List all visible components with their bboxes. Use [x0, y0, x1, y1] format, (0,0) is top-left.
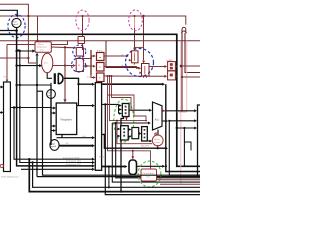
svg-text:M: M — [99, 67, 101, 69]
wire connector y50 — [17, 49, 20, 51]
wire pink y112 — [177, 111, 187, 113]
svg-text:mem: mem — [87, 76, 92, 78]
wire red vertical x143.5 — [143, 16, 145, 60]
wire RB arrow y120.8 — [169, 120, 194, 122]
wire x108.9 from cap band down — [108, 167, 110, 188]
node junction PC out — [15, 29, 18, 32]
wire vertical x51 feeding register pins — [50, 85, 52, 145]
wire top red 2 — [0, 16, 186, 25]
wire IR upper out corner to S1 — [83, 56, 93, 59]
wire RC bottom join — [157, 146, 159, 148]
svg-text:ALU: ALU — [155, 118, 160, 121]
svg-text:Sequencer: Sequencer — [37, 46, 48, 49]
wire red right y66 — [181, 65, 200, 67]
wire red decoder right out y47 to register — [51, 47, 76, 100]
wire x121 M1 bottom down — [121, 117, 124, 192]
wire M1 out y110.2 — [129, 109, 149, 111]
annotation magenta ellipse 1 — [76, 10, 89, 30]
annotation blue circle 3 — [126, 49, 154, 77]
pin red input circle on P10 — [0, 164, 3, 167]
wire pink inside magenta ellipse2 — [134, 16, 136, 28]
annotation magenta ellipse 2 — [129, 10, 143, 31]
wire red corner x106 down — [106, 41, 139, 68]
wire x14 down to y159.2 — [14, 108, 92, 160]
wire arrow into RC left mid — [148, 140, 150, 142]
wire M1 pin stubs — [118, 104, 121, 113]
op RC micro counter circle — [152, 135, 163, 146]
wire x184.4 lower branch — [183, 128, 185, 166]
wire bottom loop x32.6 — [33, 163, 200, 188]
svg-text:ptr+1: ptr+1 — [13, 23, 19, 26]
component IR box — [76, 59, 83, 72]
wire B1 right y166.5 to capsule thick — [102, 166, 125, 168]
wire x112.3 down — [112, 123, 200, 182]
svg-text:0x00 0x0000 t=12: 0x00 0x0000 t=12 — [1, 176, 19, 179]
component RB right box — [198, 105, 201, 177]
wire x115.7 down — [116, 123, 200, 178]
wire gate legs down — [181, 33, 183, 112]
wire black bus from gate to B1 — [64, 78, 92, 84]
wire red y58 step — [0, 57, 28, 59]
wire left vertical LV2 — [20, 50, 92, 163]
wire arrow into P10 left y112.5 — [0, 112, 1, 114]
component BX2 — [132, 128, 139, 139]
svg-text:Inst: Inst — [13, 20, 17, 23]
wire comp1 second left arrow — [128, 59, 131, 61]
component stack S2 — [97, 63, 105, 72]
svg-text:unit: unit — [40, 48, 44, 51]
wire comp2 right to EXE — [149, 66, 165, 68]
svg-text:Instruction 1(5): Instruction 1(5) — [66, 160, 81, 163]
wire RB arrow y128 — [177, 127, 195, 129]
gate G1 tri-state — [54, 73, 56, 84]
annotation blue circle 2a — [73, 45, 86, 58]
wire black y85 — [17, 84, 51, 86]
wire arrow into P10 left y87 — [0, 86, 1, 88]
pin EXE right nubs — [175, 67, 176, 77]
component comp1 — [132, 51, 138, 63]
component stack S1 — [97, 53, 105, 61]
wire comp2 bottom stubs — [144, 76, 147, 78]
wire comp1 bottom stub — [133, 63, 135, 65]
wire M2 out red arrow — [162, 110, 166, 112]
wire B1 out to M1 y104.4 — [102, 103, 119, 105]
component Register box — [56, 103, 76, 135]
wire M2 lower out y121 — [162, 120, 166, 122]
wire comp1 top connector to comp2 feed — [135, 46, 144, 48]
wire black top bus y34.3 — [0, 34, 200, 166]
wire x105.3 down long to bottom — [105, 104, 200, 194]
wire arrows into BX1 — [116, 128, 119, 130]
svg-text:Register: Register — [61, 118, 73, 122]
component capsule — [129, 160, 137, 175]
svg-text:Out: Out — [82, 135, 86, 138]
component instruction decoder box — [35, 42, 51, 53]
wire red decoder right out y44.5 — [51, 41, 67, 45]
wire B1 out y134.4 to y148.2 long — [102, 134, 166, 148]
annotation green ellipse 2 — [138, 161, 161, 187]
svg-text:Forwarding: Forwarding — [143, 172, 155, 175]
component EXE box lower — [168, 71, 176, 80]
wire arrow BX2 to BX3 — [138, 133, 141, 135]
svg-text:imped: imped — [51, 146, 56, 148]
svg-text:EXM8: EXM8 — [167, 60, 174, 62]
wire S1 out to comp1 — [104, 55, 126, 57]
wire top red 1 — [0, 4, 28, 16]
component stack S3 — [97, 73, 105, 82]
svg-text:Micro: Micro — [154, 138, 160, 141]
component FW red box — [141, 169, 157, 181]
wire red frame to y143.7 — [117, 121, 152, 144]
wire left vertical LV1 thick — [17, 31, 93, 166]
wire red nest x111.5 — [112, 76, 132, 110]
svg-text:Instruction 2(5): Instruction 2(5) — [66, 163, 81, 166]
svg-text:Reg2: Reg2 — [99, 157, 105, 159]
wire pink vertical right a — [186, 41, 188, 112]
node junction x143.5 y16 — [142, 15, 144, 17]
annotation blue circle 2b — [72, 58, 86, 72]
wire oval bottom to gate — [47, 73, 52, 79]
wire red nest x107.5 long — [108, 76, 147, 121]
component BX3 — [142, 127, 148, 141]
svg-text:R flag: R flag — [97, 50, 103, 52]
component comp2 — [142, 64, 150, 77]
junction dots bottom-left grid — [28, 158, 30, 160]
wire S3 out long to EXE — [104, 75, 165, 77]
wire bottom loop x29.3 thick — [29, 159, 200, 191]
svg-text:count: count — [154, 141, 160, 144]
op red oval decode — [42, 53, 53, 73]
wire red right y77 — [182, 76, 200, 78]
wire pink vertical right b — [180, 42, 182, 184]
wire register bottom out y137.7 — [57, 135, 93, 138]
op +1 circle C2 — [50, 83, 52, 90]
wire arrow into comp2 top — [142, 61, 145, 64]
wire black arrow into decoder left — [17, 50, 33, 52]
wire black y10.3 into PC top — [0, 10, 17, 15]
svg-text:Inst: Inst — [48, 91, 52, 94]
wire x168.3 vertical — [169, 121, 200, 175]
wire red oval out y65.5 — [53, 65, 73, 67]
component EXE box upper — [168, 62, 176, 71]
component BX1 — [121, 126, 129, 140]
wire S3 left arrow stub — [91, 75, 93, 78]
wire red vertical x37.5 — [37, 16, 39, 42]
wire black arrow into oval — [17, 65, 40, 67]
wire red into capsule top — [132, 151, 134, 157]
wire red left loop y44.5 — [7, 45, 35, 79]
node junction x37.5 y40.7 — [36, 40, 38, 42]
wire red x107.5 to y150.8 — [108, 95, 151, 169]
svg-text:inst: inst — [44, 62, 48, 65]
wire arrow BX1 to BX2 — [127, 129, 130, 131]
wire black down to register top wire — [79, 84, 93, 105]
wire red FW out — [157, 179, 201, 181]
wire step x42.5 — [37, 91, 200, 175]
wire right vertical x164.5 — [166, 84, 200, 171]
wire black y123 — [112, 122, 148, 124]
component small box A — [78, 37, 85, 44]
wire red nest x109.5 — [110, 76, 147, 121]
wire S2 out to comp2 — [104, 67, 139, 69]
svg-text:unit: unit — [146, 176, 150, 179]
wire B1 right bus y84.2 to right — [102, 83, 163, 85]
component P10 tall box — [4, 82, 11, 172]
wire register out right y105.6 — [77, 105, 79, 107]
wire comp2 second left arrow — [139, 72, 141, 74]
wire hiZ out thick y145.7 — [59, 145, 92, 147]
svg-text:Instruction OK(5): Instruction OK(5) — [63, 156, 80, 159]
wire red horizontal y40.7 — [0, 40, 200, 42]
wire red vertical x82.5 upper — [82, 16, 84, 37]
svg-text:Micro: Micro — [38, 43, 44, 46]
op hi-Z circle — [50, 140, 59, 151]
wire instruction line y169.3 — [21, 168, 92, 170]
wire black y30.5 from PC circle — [0, 30, 17, 32]
wire red vertical x134.5 — [134, 28, 136, 50]
component M1 box — [122, 104, 129, 117]
annotation green ellipse 1 tall — [114, 99, 134, 142]
wire red vertical x91 — [90, 50, 92, 75]
component B1 tall buffer box — [95, 83, 101, 171]
wire red y184.3 — [160, 183, 200, 185]
wire M2 bottom to RC — [157, 130, 159, 136]
component small box B — [76, 48, 83, 57]
wire red arrow into P10 box top — [6, 78, 8, 81]
component M2 ALU trapezoid — [153, 102, 163, 130]
wire IR out arrow to S2 — [83, 65, 93, 67]
op PC incrementer circle — [12, 18, 21, 27]
annotation blue dashed ellipse PC — [8, 14, 25, 37]
wire arrow into comp1 top — [133, 48, 136, 51]
wire black decoder bottom up-arrow, continues to bottom loop — [37, 56, 200, 177]
wire red x126 M1 bottom — [126, 117, 128, 121]
gate top-right buffer — [182, 27, 186, 32]
wire RB arrow y110.8 — [166, 110, 195, 112]
svg-text:MicroPC: MicroPC — [141, 144, 150, 147]
wire P10 out y107.5 — [10, 107, 51, 109]
wire capsule out y166.3 — [137, 165, 163, 167]
wire register pin stubs — [51, 108, 53, 131]
